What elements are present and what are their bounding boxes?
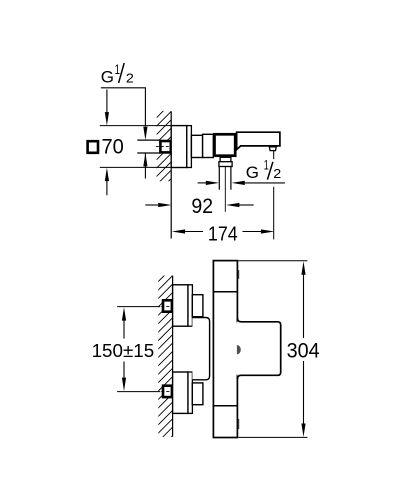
dimension G1/2 shower outlet	[198, 182, 207, 184]
svg-text:92: 92	[191, 195, 213, 218]
right extension (front view)	[237, 318, 280, 379]
union fitting bottom (front view)	[163, 386, 172, 397]
svg-text:70: 70	[102, 134, 124, 158]
dimension 70 extension lines	[100, 125, 171, 127]
wall hatching (front view)	[158, 267, 173, 451]
junction mask	[236, 322, 238, 374]
svg-text:174: 174	[208, 222, 238, 245]
flange plate (top view)	[187, 126, 192, 168]
shower outlet centerline	[224, 167, 226, 212]
union fitting (top view)	[160, 141, 170, 152]
wall face line (front view)	[172, 276, 174, 437]
flange bottom (front view)	[173, 372, 188, 413]
union fitting top (front view)	[163, 300, 172, 311]
dimension 70 arrows	[106, 90, 108, 113]
main body (front view)	[213, 261, 237, 438]
fitting centerlines (front view)	[161, 306, 174, 308]
svg-text:150±15: 150±15	[92, 340, 155, 361]
svg-text:1: 1	[115, 62, 120, 77]
cap separator top	[213, 291, 237, 293]
cap separator bottom	[213, 405, 237, 407]
dimension 174	[172, 229, 185, 233]
flange top (front view)	[173, 285, 188, 326]
spout (top view)	[237, 132, 280, 149]
connector top (front view)	[192, 295, 203, 317]
shower outlet pipe	[218, 167, 220, 190]
dimension 92	[145, 204, 158, 206]
leader for G1/2 top-left	[101, 88, 145, 127]
wall hatching (top view)	[156, 102, 172, 193]
svg-text:304: 304	[287, 339, 320, 363]
valve block (top view)	[215, 134, 236, 155]
supply pipe (top view)	[137, 141, 160, 153]
174 right extension / mousseur leader	[273, 151, 275, 159]
connector bottom (front view)	[192, 383, 203, 405]
svg-text:G: G	[101, 68, 114, 87]
escutcheon flange (top view)	[171, 126, 187, 168]
svg-text:2: 2	[273, 167, 281, 181]
dimension 304	[238, 260, 307, 262]
body piece A (top view)	[191, 135, 202, 157]
square symbol for 70	[88, 141, 98, 153]
fitting centerline (top view)	[156, 146, 170, 148]
check valve tick top	[238, 270, 239, 279]
body neck B (top view)	[203, 134, 214, 157]
150 dimension extension lines	[117, 306, 160, 308]
back housing bulge (front view)	[192, 318, 209, 380]
svg-text:2: 2	[126, 72, 134, 86]
svg-text:1: 1	[264, 158, 269, 173]
wall face line (top view), extends down as 174 extension	[170, 111, 172, 238]
shower outlet piece	[220, 157, 231, 161]
svg-text:G: G	[246, 163, 259, 182]
shower outlet nut	[219, 162, 232, 167]
check valve tick bottom	[238, 419, 239, 429]
temp button	[237, 345, 241, 354]
mousseur	[269, 147, 276, 151]
dimension 150±15	[122, 307, 126, 321]
